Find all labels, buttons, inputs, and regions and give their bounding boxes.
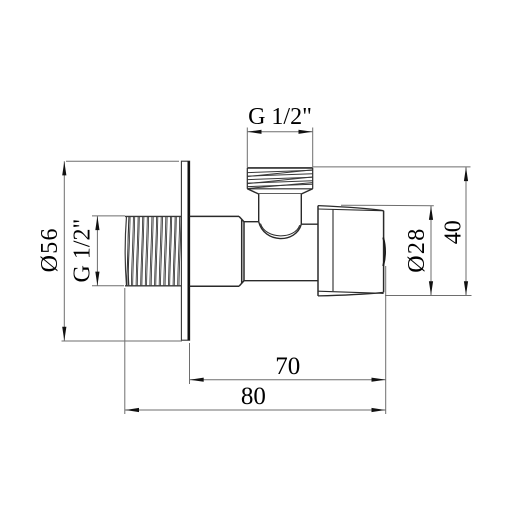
svg-text:80: 80 <box>241 383 266 410</box>
dimension: right Ø28 <box>341 205 472 295</box>
svg-text:Ø28: Ø28 <box>404 227 430 272</box>
neck bottom dome arcs <box>259 222 302 239</box>
dimension: left Ø56 <box>62 161 183 341</box>
mid-section shoulders <box>244 222 318 281</box>
svg-text:G 1/2": G 1/2" <box>248 104 312 130</box>
wall flange plate <box>181 161 189 340</box>
inlet thread crest lines <box>127 217 181 286</box>
inlet male thread G1/2 (left, hatched) <box>125 216 181 285</box>
outlet thread helix lines <box>248 170 313 189</box>
outlet thread to neck taper <box>247 189 312 194</box>
valve body cylinder <box>190 216 245 286</box>
svg-text:70: 70 <box>275 353 300 380</box>
svg-text:40: 40 <box>440 220 466 244</box>
dimension: right 40 <box>313 167 471 296</box>
dimension: left G 1/2" thread length <box>92 216 125 286</box>
svg-text:Ø56: Ø56 <box>37 227 63 272</box>
dimension: bottom 70 <box>190 266 386 414</box>
dimension: top G 1/2" <box>247 128 312 168</box>
neck vertical walls <box>259 194 302 224</box>
dimension: bottom 80 <box>125 288 386 414</box>
handle knob <box>318 206 385 296</box>
outlet male thread G1/2 (top) <box>247 168 312 189</box>
svg-text:G 1/2": G 1/2" <box>70 219 96 283</box>
